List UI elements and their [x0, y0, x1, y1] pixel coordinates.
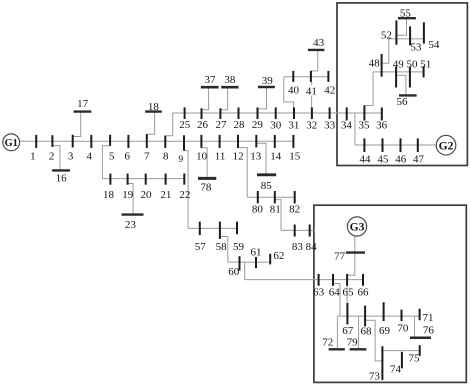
bus 28 tick: [238, 107, 240, 119]
bus 33 tick: [329, 107, 331, 119]
svg-text:59: 59: [233, 241, 245, 253]
svg-text:39: 39: [262, 75, 274, 87]
bus 81 tick: [274, 191, 276, 203]
bus 2 tick: [51, 135, 53, 147]
svg-text:37: 37: [205, 74, 217, 86]
svg-text:25: 25: [179, 119, 191, 131]
bus 40 tick: [292, 71, 294, 82]
wire feeder 67-71: [337, 315, 419, 317]
wire bus 7 to bus 18: [147, 112, 155, 135]
svg-text:64: 64: [329, 286, 341, 298]
bus 22 tick: [183, 174, 185, 185]
svg-text:28: 28: [234, 119, 246, 131]
svg-text:56: 56: [397, 96, 409, 108]
wire feeder 57-59: [188, 227, 237, 229]
bus 47 tick: [417, 138, 419, 152]
bus 7 tick: [146, 134, 148, 148]
bus 79 bar: [350, 348, 367, 350]
bus 1 tick: [35, 135, 37, 148]
svg-text:52: 52: [381, 29, 392, 41]
bus 11 tick: [219, 135, 221, 148]
svg-text:71: 71: [423, 312, 434, 324]
wire bus 31 to feeder 40-42: [284, 77, 294, 108]
bus 18 load bar: [145, 110, 162, 112]
bus 21 tick: [165, 174, 167, 185]
svg-text:60: 60: [228, 266, 240, 278]
bus 20 tick: [145, 174, 147, 185]
bus 37 bar: [201, 86, 219, 89]
bus 17 bar: [74, 110, 92, 112]
bus 38 bar: [221, 86, 238, 89]
wire feeder 63-66: [245, 279, 363, 281]
bus 66 tick: [362, 274, 364, 286]
wire bus 8 to upper feeder: [165, 113, 172, 136]
svg-text:80: 80: [252, 203, 264, 215]
svg-text:47: 47: [413, 154, 425, 166]
svg-text:9: 9: [178, 155, 183, 165]
bus 14 tick: [274, 135, 276, 148]
wire bus 41 to bus 32 upper: [311, 82, 313, 85]
bus 50 tick: [409, 67, 411, 88]
svg-text:26: 26: [197, 119, 209, 131]
bus 57 tick: [199, 222, 201, 236]
bus 67 tick: [346, 303, 348, 324]
svg-text:61: 61: [251, 246, 262, 258]
wire bus 35 to feeder 48-51: [364, 72, 373, 106]
svg-text:84: 84: [306, 241, 318, 253]
bus 3 tick: [72, 135, 74, 148]
bus 70 tick: [401, 310, 403, 321]
svg-text:4: 4: [86, 150, 92, 162]
svg-text:62: 62: [273, 250, 284, 262]
svg-text:49: 49: [393, 58, 405, 70]
svg-text:27: 27: [216, 119, 228, 131]
bus 5 tick: [109, 135, 111, 146]
wire bus 19 to bus 23: [128, 184, 134, 216]
bus 16 bar: [52, 169, 70, 171]
bus 80 tick: [257, 191, 259, 203]
wire bus 41 to bus 43: [311, 50, 318, 71]
svg-text:67: 67: [342, 325, 354, 337]
svg-text:12: 12: [233, 150, 244, 162]
wire down to bus 72: [336, 316, 338, 349]
svg-text:10: 10: [196, 150, 208, 162]
bus 48 tick: [381, 54, 383, 77]
wire feeder 60-62: [228, 261, 270, 263]
svg-text:65: 65: [343, 286, 355, 298]
bus 54 tick: [423, 22, 425, 43]
bus 41 tick: [310, 71, 312, 82]
svg-text:57: 57: [195, 241, 207, 253]
wire feeder 44-47 to G2: [355, 144, 436, 146]
wire bus 3 to bus 17: [73, 112, 81, 137]
svg-text:3: 3: [68, 150, 74, 162]
bus 58 tick: [219, 222, 221, 239]
svg-text:46: 46: [395, 154, 407, 166]
bus 34 tick: [346, 107, 348, 120]
bus 19 tick: [127, 174, 129, 185]
svg-text:42: 42: [324, 84, 335, 96]
svg-text:53: 53: [410, 41, 422, 53]
svg-text:32: 32: [306, 119, 317, 131]
svg-text:15: 15: [289, 150, 301, 162]
bus 85 bar: [257, 173, 276, 176]
svg-text:73: 73: [369, 370, 381, 382]
wire bus 26 to bus 37: [202, 87, 209, 110]
svg-text:21: 21: [160, 189, 171, 201]
svg-text:5: 5: [109, 150, 115, 162]
svg-text:18: 18: [148, 101, 160, 113]
bus 35 tick: [363, 105, 365, 120]
generator G2: [436, 135, 456, 155]
svg-text:63: 63: [313, 286, 325, 298]
wire bus 68 to bus 73: [365, 320, 382, 361]
svg-text:G1: G1: [4, 138, 17, 149]
svg-text:31: 31: [288, 119, 299, 131]
svg-text:35: 35: [359, 119, 371, 131]
bus 30 tick: [275, 107, 277, 119]
bus 32 tick: [311, 107, 313, 119]
svg-text:78: 78: [200, 182, 212, 194]
box region G3 subsystem: [314, 205, 466, 382]
bus 71 tick: [419, 309, 421, 321]
bus 46 tick: [400, 138, 402, 152]
wire feeder 40-42: [284, 76, 329, 78]
svg-text:85: 85: [261, 180, 273, 192]
svg-text:75: 75: [409, 352, 421, 364]
wire feeder 18-22: [102, 178, 184, 180]
bus 61 tick: [255, 257, 257, 268]
svg-text:74: 74: [390, 364, 402, 376]
svg-text:79: 79: [347, 337, 359, 349]
wire bus 27 to bus 38: [220, 87, 227, 110]
wire feeder 83-84: [281, 229, 314, 231]
svg-text:43: 43: [313, 37, 325, 49]
svg-text:29: 29: [252, 119, 264, 131]
wire bus 2 to bus 16: [52, 146, 60, 171]
bus 42 tick: [327, 71, 329, 82]
svg-text:48: 48: [369, 58, 381, 70]
svg-text:11: 11: [215, 150, 226, 162]
generator G3: [347, 217, 366, 236]
bus 13 tick: [255, 135, 257, 148]
wire main feeder G1 to bus 15: [20, 140, 294, 142]
bus 51 tick: [423, 66, 425, 77]
wire bus 70 to bus 76: [414, 316, 416, 338]
wire bus 49 to bus 56: [396, 75, 406, 95]
wire bus 52 to bus 55: [396, 18, 406, 35]
bus 68 tick: [364, 306, 366, 327]
bus 27 tick: [219, 108, 221, 119]
svg-text:66: 66: [358, 286, 370, 298]
svg-text:36: 36: [376, 119, 388, 131]
bus 75 tick: [419, 345, 421, 356]
svg-text:23: 23: [125, 219, 137, 231]
wire bus 58 to bus 60: [220, 237, 228, 263]
wire bus 64 down to feeder 67-71: [333, 284, 340, 317]
svg-text:69: 69: [379, 325, 391, 337]
svg-text:70: 70: [397, 323, 409, 335]
wire bus 9 down to feeder 57-59: [184, 151, 188, 229]
bus 25 tick: [184, 107, 186, 119]
svg-text:8: 8: [163, 150, 169, 162]
svg-text:14: 14: [270, 150, 282, 162]
bus 72 bar: [329, 348, 345, 350]
svg-text:1: 1: [30, 150, 36, 162]
svg-text:7: 7: [144, 150, 150, 162]
bus 9 tick: [183, 135, 185, 150]
wire down to bus 79: [358, 316, 360, 349]
bus 77 bar: [346, 251, 365, 253]
bus 44 tick: [363, 138, 365, 152]
bus 56 bar: [399, 94, 417, 96]
bus 4 tick: [90, 135, 92, 148]
bus 60 tick: [239, 256, 241, 270]
bus 74 tick: [401, 352, 403, 369]
svg-text:82: 82: [289, 203, 300, 215]
wire G3 to bus 77 to bus 65: [347, 236, 355, 275]
wire bus 29 to bus 39: [258, 87, 267, 109]
bus 59 tick: [236, 222, 238, 235]
bus 31 tick: [293, 107, 295, 119]
wire bus 12 down to feeder 80-82: [238, 148, 247, 198]
bus 45 tick: [382, 138, 384, 152]
wire feeder 52-54: [389, 38, 424, 40]
bus 73 tick: [381, 346, 383, 380]
svg-text:76: 76: [423, 325, 435, 337]
svg-text:G2: G2: [439, 140, 454, 152]
wire bus 65 to bus 67: [346, 286, 348, 304]
wire feeder 80-82: [247, 196, 295, 198]
bus 82 tick: [294, 191, 296, 203]
bus 26 tick: [201, 108, 203, 119]
svg-text:83: 83: [292, 241, 304, 253]
bus 53 tick: [409, 26, 411, 45]
svg-text:51: 51: [420, 58, 431, 70]
generator G1: [3, 134, 20, 151]
bus 36 tick: [381, 107, 383, 120]
svg-text:72: 72: [322, 336, 333, 348]
bus 52 tick: [395, 21, 397, 45]
bus 8 tick: [164, 136, 166, 148]
svg-text:50: 50: [407, 58, 419, 70]
bus 83 tick: [294, 225, 296, 237]
bus 29 tick: [257, 107, 259, 119]
bus 15 tick: [292, 135, 294, 148]
bus 18 tick: [109, 174, 111, 185]
svg-text:40: 40: [288, 84, 300, 96]
wire bus 81 down to feeder 83-84: [275, 200, 281, 231]
bus 78 bar: [198, 177, 216, 180]
svg-text:58: 58: [216, 241, 228, 253]
svg-text:17: 17: [77, 98, 89, 110]
box region G2 subsystem: [337, 3, 467, 166]
svg-text:G3: G3: [350, 222, 365, 234]
bus 23 bar: [122, 213, 144, 215]
svg-text:22: 22: [179, 189, 190, 201]
svg-text:33: 33: [324, 119, 336, 131]
svg-text:16: 16: [56, 172, 68, 184]
bus 84 tick: [309, 225, 311, 237]
wire bus 48 to feeder 52-54: [382, 39, 389, 63]
bus 63 tick: [318, 274, 320, 286]
bus 76 bar: [410, 336, 431, 339]
wire bus 5 to lower feeder: [102, 146, 110, 179]
svg-text:34: 34: [341, 119, 353, 131]
svg-text:20: 20: [141, 189, 153, 201]
svg-text:41: 41: [306, 86, 317, 98]
wire feeder 48-51: [373, 71, 424, 73]
svg-text:44: 44: [360, 154, 372, 166]
bus 6 tick: [127, 135, 129, 148]
svg-text:19: 19: [122, 189, 134, 201]
wire bus 10 to bus 78: [201, 148, 207, 179]
bus 12 tick: [237, 135, 239, 148]
wire bus 34 down to feeder 44-47: [354, 113, 356, 145]
bus 49 tick: [395, 67, 397, 88]
wire feeder 25-36: [173, 112, 382, 114]
svg-text:38: 38: [224, 74, 236, 86]
svg-text:45: 45: [377, 154, 389, 166]
wire bus 41 to bus 32 lower: [311, 96, 313, 113]
svg-text:54: 54: [428, 39, 440, 51]
svg-text:68: 68: [361, 325, 373, 337]
bus 64 tick: [332, 274, 334, 286]
svg-text:77: 77: [334, 250, 346, 262]
svg-text:30: 30: [270, 119, 282, 131]
wire feeder 73-75: [382, 350, 419, 352]
svg-text:13: 13: [250, 150, 262, 162]
bus 65 tick: [346, 274, 348, 286]
svg-text:81: 81: [270, 203, 281, 215]
bus 10 tick: [200, 135, 202, 148]
bus 62 tick: [269, 254, 271, 265]
svg-text:18: 18: [103, 189, 115, 201]
bus 43 bar: [308, 49, 325, 51]
svg-text:6: 6: [125, 150, 131, 162]
bus 69 tick: [383, 302, 385, 321]
bus 55 bar: [398, 17, 416, 19]
bus 39 bar: [258, 86, 275, 88]
wire bus 60 to bus 63: [244, 262, 246, 280]
svg-text:2: 2: [49, 150, 55, 162]
wire bus 13 to bus 85: [256, 143, 266, 175]
svg-text:55: 55: [400, 8, 412, 20]
